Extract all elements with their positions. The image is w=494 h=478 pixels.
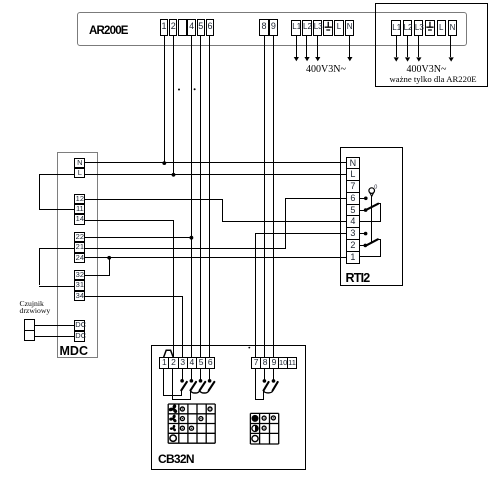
terminal MDC-14 <box>74 214 85 224</box>
contact dot RTI2-2 <box>364 244 368 248</box>
contact dot CB32N-5 <box>199 379 203 383</box>
wire RTI2-1 stub to switch pivot <box>360 256 382 257</box>
wire CB32N-9 to contact <box>273 369 274 381</box>
wire MDC-24 to RTI2-1 <box>85 257 346 258</box>
switch arm heat 1 <box>264 382 269 390</box>
node wire1-Nbus <box>162 161 166 165</box>
terminal MDC-31 <box>74 280 85 290</box>
table CB32N heater stages <box>250 413 278 444</box>
arrow supply AR220E-N <box>449 57 454 61</box>
wire L bus MDC-L to RTI2-L <box>85 174 346 175</box>
wire gang hook arms 3-4 <box>200 390 209 393</box>
contact dot RTI2-3 <box>364 232 368 236</box>
arrow supply AR200E-N <box>347 57 352 61</box>
switch arm CB32N speed 3 <box>200 382 206 390</box>
terminal AR200E-L2 <box>302 20 312 35</box>
wire MDC-14 to CB32N-2 <box>85 220 173 221</box>
terminal AR200E-5 <box>197 19 205 35</box>
wire CB32N-3 to contact <box>182 369 183 381</box>
sensor bulb RTI2 <box>369 184 377 196</box>
node wire4-MDC22 <box>190 236 194 240</box>
wire MDC-22 to node on wire 4 <box>85 237 191 238</box>
wire AR200E-9 down to CB32N-9 <box>273 36 274 358</box>
terminal CB32N-1 <box>159 357 169 368</box>
terminal CB32N-6 <box>205 357 215 368</box>
ground PE AR200E <box>325 22 332 30</box>
wire CB32N-2 to switch arm 2 <box>172 369 173 400</box>
label 400V3N supply AR220E <box>407 64 447 75</box>
label wazne tylko dla AR220E <box>390 74 477 84</box>
arrow supply AR220E-L2 <box>405 57 410 61</box>
icon fan off <box>170 435 176 441</box>
wire RTI2-5 contact stub <box>360 210 365 211</box>
terminal RTI2-7 <box>346 180 359 193</box>
contact dot CB32N-6 <box>208 379 212 383</box>
switch arm CB32N speed 4 <box>209 382 215 390</box>
label AR200E <box>89 25 128 37</box>
wire CB32N-5 to contact <box>200 369 201 381</box>
node MDC24-branch <box>107 256 111 260</box>
icon fan speed high <box>168 404 177 414</box>
switch arm CB32N speed 2 <box>191 382 197 390</box>
terminal RTI2-5 <box>346 204 359 217</box>
svg-text:0: 0 <box>374 184 377 190</box>
terminal RTI2-2 <box>346 239 359 252</box>
wire MDC left bus 21 to 31 <box>39 248 74 249</box>
controller box AR200E <box>77 12 467 46</box>
wire AR220E-L2 supply <box>407 36 408 57</box>
wire AR220E-L1 supply <box>396 36 397 57</box>
wire door sensor to MDC DC1 <box>35 325 75 326</box>
terminal MDC-32 <box>74 270 85 280</box>
label CB32N <box>158 452 194 466</box>
switch arm heat 2 <box>273 382 278 390</box>
switch arm RTI2 lower <box>365 239 378 246</box>
terminal MDC-34 <box>74 291 85 301</box>
contact dot RTI2-5 <box>364 208 368 212</box>
wire AR200E-L3 supply <box>317 36 318 57</box>
wire CB32N-6 to contact <box>209 369 210 381</box>
terminal AR220E-L <box>437 20 447 36</box>
terminal MDC-11 <box>74 204 85 214</box>
arrow supply AR200E-L3 <box>315 57 320 61</box>
wire RTI2-4 stub to switch pivot <box>360 221 382 222</box>
terminal MDC-L <box>74 168 85 178</box>
wire CB32N-8 to contact <box>264 369 265 381</box>
wire AR200E-4 down to CB32N-4 <box>191 36 192 358</box>
arrow supply AR220E-L1 <box>394 57 399 61</box>
node dot artifact A <box>178 89 180 91</box>
terminal CB32N-3 <box>178 357 188 368</box>
terminal CB32N-5 <box>196 357 206 368</box>
wire AR220E-N supply <box>450 36 451 57</box>
wire MDC-12 to RTI2-4 <box>85 199 222 200</box>
arrow supply AR200E-L2 <box>304 57 309 61</box>
ground PE AR220E <box>426 22 433 30</box>
wire RTI2-3 contact stub <box>360 233 365 234</box>
terminal AR220E-L1 <box>391 20 401 36</box>
terminal RTI2-1 <box>346 251 359 264</box>
wire N bus MDC-N to RTI2-N <box>85 162 346 163</box>
terminal MDC-DC2 <box>74 331 85 342</box>
icon heat full <box>252 415 259 422</box>
icon heat half <box>252 425 258 432</box>
terminal AR200E-PE <box>323 20 333 35</box>
terminal CB32N-9 <box>269 357 279 368</box>
door sensor Czujnik drzwiowy symbol <box>24 319 35 340</box>
thermostat box RTI2 <box>340 147 403 286</box>
mark fan-high col4 <box>208 407 212 411</box>
mark fan-low col2 <box>190 426 194 430</box>
terminal CB32N-10 <box>278 357 288 368</box>
terminal AR200E-9 <box>269 19 279 35</box>
power box only for AR220E <box>375 3 488 88</box>
terminal CB32N-2 <box>168 357 178 368</box>
icon fan speed medium <box>169 414 177 423</box>
arrow supply AR220E-L3 <box>416 57 421 61</box>
wire AR200E-8 down to CB32N-8 <box>264 36 265 358</box>
mark fan-med col1 <box>180 417 184 421</box>
terminal MDC-21 <box>74 242 85 252</box>
terminal MDC-22 <box>74 232 85 242</box>
contact dot CB32N-4 <box>190 379 194 383</box>
terminal AR220E-L3 <box>414 20 424 36</box>
wire AR200E-6 down to CB32N-6 <box>209 36 210 358</box>
terminal AR200E-2 <box>169 19 177 35</box>
contact dot CB32N-8 <box>263 379 267 383</box>
mark heat-half col1 <box>262 426 266 430</box>
terminal RTI2-4 <box>346 215 359 228</box>
label 400V3N supply AR200E <box>306 64 346 75</box>
terminal AR220E-L2 <box>403 20 413 36</box>
wire gang hook arms 2-3 <box>191 390 200 393</box>
icon fan speed low <box>170 425 177 432</box>
wire AR200E-5 down to CB32N-5 <box>200 36 201 358</box>
terminal AR200E-8 <box>259 19 269 35</box>
wire CB32N-4 to contact <box>191 369 192 381</box>
wire AR200E-L2 supply <box>306 36 307 57</box>
wire branch MDC-24 to MDC-32 <box>109 257 110 275</box>
wire RTI2 sensor actuator line <box>371 196 372 241</box>
mark heat-full col1 <box>262 416 266 420</box>
module box MDC <box>57 152 98 359</box>
wire MDC-34 to CB32N-3 <box>85 296 183 297</box>
mark fan-low col1 <box>180 426 184 430</box>
terminal CB32N-8 <box>260 357 270 368</box>
wire MDC-21 to RTI2-6 <box>85 248 286 249</box>
label RTI2 <box>346 271 370 285</box>
contact dot CB32N-3 <box>180 379 184 383</box>
terminal RTI2-L <box>346 168 359 181</box>
contact dot CB32N-9 <box>272 379 276 383</box>
terminal AR200E-blank <box>178 19 186 35</box>
switch box CB32N <box>151 345 306 471</box>
switch arm CB32N speed 1 <box>181 382 187 390</box>
wire AR220E-L3 supply <box>418 36 419 57</box>
terminal MDC-12 <box>74 194 85 204</box>
terminal CB32N-4 <box>187 357 197 368</box>
terminal AR220E-PE <box>425 20 435 36</box>
wire CB32N-7 to switch arm 8 <box>255 369 256 399</box>
wire AR200E-L1 supply <box>296 36 297 57</box>
table CB32N fan speeds <box>168 404 215 443</box>
terminal MDC-24 <box>74 253 85 263</box>
terminal AR200E-L <box>334 20 344 35</box>
contact dot RTI2-6 <box>364 197 368 201</box>
wire CB32N-1 to switch arm 1 <box>163 369 164 395</box>
terminal MDC-N <box>74 158 85 168</box>
terminal MDC-DC1 <box>74 320 85 331</box>
mark fan-high col1 <box>180 407 184 411</box>
terminal AR200E-4 <box>187 19 195 35</box>
terminal RTI2-N <box>346 157 359 170</box>
wire RTI2-6 contact stub <box>360 198 365 199</box>
switch arm RTI2 upper <box>365 204 378 211</box>
arrow supply AR200E-L1 <box>294 57 299 61</box>
wire jumper CB32N-1 to CB32N-2 <box>164 350 174 357</box>
terminal AR200E-1 <box>160 19 168 35</box>
mark fan-med col3 <box>199 417 203 421</box>
node dot artifact C <box>248 347 250 349</box>
terminal AR200E-L1 <box>291 20 301 35</box>
terminal AR220E-N <box>448 20 458 36</box>
label Czujnik drzwiowy <box>20 301 51 315</box>
wire RTI2-2 contact stub <box>360 245 365 246</box>
terminal AR200E-N <box>345 20 355 35</box>
wire door sensor to MDC DC2 <box>35 336 75 337</box>
mark heat-full col2 <box>271 416 275 420</box>
label MDC <box>60 344 88 358</box>
wire gang hook arms 8-9 <box>264 390 273 393</box>
terminal AR200E-6 <box>206 19 214 35</box>
terminal AR200E-L3 <box>313 20 323 35</box>
wire CB32N-7 to RTI2-3 <box>255 233 256 357</box>
terminal RTI2-6 <box>346 192 359 205</box>
node dot artifact B <box>194 88 196 90</box>
wire AR200E-2 down to L bus <box>173 36 174 175</box>
terminal CB32N-11 <box>287 357 297 368</box>
node wire2-Lbus <box>172 173 176 177</box>
terminal CB32N-7 <box>251 357 261 368</box>
wire AR200E-N supply <box>349 36 350 57</box>
terminal RTI2-3 <box>346 227 359 240</box>
wire MDC left bus L to 11 <box>39 174 74 175</box>
wire AR200E-1 down to N bus <box>164 36 165 164</box>
icon heat off <box>252 436 258 442</box>
